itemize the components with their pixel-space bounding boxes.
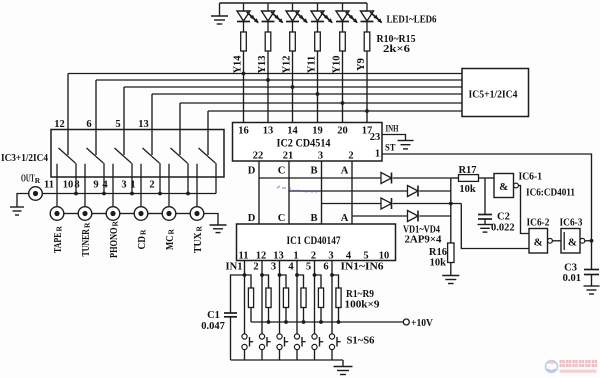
svg-text:INH: INH — [386, 125, 399, 135]
wire R6 to +10V bus — [338, 308, 340, 323]
svg-text:IC6-2: IC6-2 — [527, 218, 550, 229]
wire Y10 column — [342, 51, 344, 123]
junction resistor bottom — [337, 320, 341, 324]
resistor R10 — [241, 32, 247, 51]
junction OUT bus — [186, 192, 190, 196]
wire jack chain — [120, 213, 134, 215]
svg-text:R: R — [83, 222, 92, 228]
resistor R6 — [336, 288, 341, 308]
svg-text:R16: R16 — [429, 247, 447, 258]
svg-text:14: 14 — [287, 126, 298, 137]
wire control to switch 4 — [151, 94, 153, 155]
resistor R14 — [340, 32, 346, 51]
wire ST to oscillator output — [382, 154, 592, 241]
svg-text:11: 11 — [239, 251, 249, 262]
svg-text:&: & — [568, 237, 577, 249]
wire control to switch 6 — [207, 111, 209, 155]
svg-text:1: 1 — [375, 149, 380, 160]
connector OUT jack — [29, 187, 43, 201]
junction resistor bottom — [319, 320, 323, 324]
wire R2 to +10V bus — [268, 308, 270, 323]
svg-text:MC: MC — [165, 236, 176, 251]
svg-text:R: R — [55, 226, 64, 232]
svg-text:TUNER: TUNER — [81, 229, 92, 257]
wire column A — [351, 161, 353, 224]
bus wire Y13 line — [96, 79, 462, 81]
junction IN6 — [330, 273, 334, 277]
svg-text:TAPE: TAPE — [53, 233, 64, 254]
wire to R17 — [451, 177, 459, 179]
resistor R12 — [290, 32, 296, 51]
wire Y9 column — [366, 51, 368, 123]
diode VD4 — [408, 211, 419, 222]
wire jacks to ground — [204, 214, 218, 225]
svg-text:Y10: Y10 — [331, 55, 342, 73]
wire Y13 column — [267, 51, 269, 123]
junction resistor bottom — [284, 320, 288, 324]
svg-text:2k×6: 2k×6 — [383, 43, 411, 55]
wire to R4 — [297, 275, 304, 288]
wire S2 to ground bus — [261, 350, 263, 360]
svg-text:C: C — [278, 166, 286, 177]
diode VD1 — [381, 173, 392, 184]
bus wire Y12 line — [124, 86, 462, 88]
analog switch 5 — [169, 148, 188, 207]
junction IN4 — [295, 273, 299, 277]
LED LED4 — [311, 3, 333, 32]
svg-text:Y12: Y12 — [281, 55, 292, 73]
wire IN1 column — [244, 261, 246, 335]
svg-text:21: 21 — [283, 151, 294, 162]
connector jack TAPER — [50, 207, 64, 221]
svg-text:PHONO: PHONO — [109, 228, 120, 259]
junction Y12 bus — [291, 85, 295, 89]
wire IN3 column — [279, 261, 281, 335]
svg-text:5: 5 — [363, 251, 368, 262]
svg-text:1: 1 — [130, 180, 135, 191]
wire to C3 — [591, 241, 593, 269]
svg-text:A: A — [341, 166, 349, 177]
resistor R16 — [448, 243, 454, 263]
wire VD4 to common — [419, 215, 451, 217]
switch S3 pushbutton — [277, 334, 288, 350]
svg-text:IN1~IN6: IN1~IN6 — [341, 262, 384, 273]
wire column D — [258, 161, 260, 224]
bus wire Y11 line — [152, 93, 462, 95]
svg-text:IC6-1: IC6-1 — [519, 172, 543, 183]
svg-text:23: 23 — [370, 132, 381, 143]
wire OUT to ground — [17, 194, 29, 207]
svg-text:IC5+1/2IC4: IC5+1/2IC4 — [469, 89, 518, 101]
terminal +10V — [403, 319, 409, 325]
svg-text:12: 12 — [54, 119, 65, 130]
svg-text:S1~S6: S1~S6 — [347, 336, 375, 347]
svg-text:R17: R17 — [458, 165, 476, 176]
svg-text:Y11: Y11 — [306, 56, 317, 74]
top supply rail — [220, 2, 368, 4]
wire IN1 to C1 — [231, 275, 245, 313]
wire S4 to ground bus — [296, 350, 298, 360]
svg-text:D: D — [248, 213, 256, 224]
LED LED3 — [286, 3, 308, 32]
wire R3 to +10V bus — [285, 308, 287, 323]
wire to R2 — [262, 275, 269, 288]
wire ground drop top-left — [219, 3, 221, 16]
svg-text:D: D — [248, 166, 256, 177]
resistor R1 — [248, 288, 253, 308]
svg-text:R: R — [35, 176, 41, 185]
svg-text:Y9: Y9 — [356, 58, 367, 71]
wire VD2 to common — [419, 190, 451, 192]
svg-text:2: 2 — [149, 180, 154, 191]
switch S1 pushbutton — [242, 334, 253, 350]
svg-text:16: 16 — [238, 126, 249, 137]
junction Y9 bus — [365, 109, 369, 113]
svg-text:IN1: IN1 — [226, 262, 243, 273]
ground OUT — [10, 207, 24, 215]
svg-text:Y14: Y14 — [232, 55, 243, 74]
svg-text:3: 3 — [121, 180, 126, 191]
wire IC6-2 to IC6-3 — [552, 240, 561, 242]
ground INH — [398, 141, 414, 149]
svg-text:ST: ST — [385, 144, 396, 154]
wire row B to VD3 — [322, 203, 382, 205]
ground top-left — [211, 16, 228, 24]
watermark text bottom-right — [560, 360, 598, 367]
analog switch 3 — [113, 148, 132, 207]
junction OUT bus — [74, 192, 78, 196]
wire row A to VD4 — [352, 215, 408, 217]
IC U-IC3 analog switch box — [51, 130, 224, 178]
ground bottom — [334, 367, 353, 375]
svg-text:OUT: OUT — [21, 174, 35, 185]
junction OUT bus — [130, 192, 134, 196]
svg-text:0.01: 0.01 — [563, 273, 581, 284]
wire C3 to ground — [591, 275, 593, 286]
wire to R3 — [280, 275, 287, 288]
IC U-IC5 box IC5+1/2IC4 — [462, 69, 529, 117]
svg-text:5: 5 — [306, 262, 311, 273]
junction Y11 bus — [316, 92, 320, 96]
junction Y13 bus — [266, 78, 270, 82]
svg-text:R: R — [195, 226, 204, 232]
svg-text:B: B — [310, 213, 317, 224]
wire VD3 to common and branch — [393, 203, 462, 205]
wire jack chain — [64, 213, 78, 215]
IC U-IC2 CD4514 box — [233, 123, 383, 162]
watermark center — [277, 186, 319, 192]
svg-text:10: 10 — [379, 251, 390, 262]
wire diode common vertical — [450, 178, 452, 243]
svg-text:0.022: 0.022 — [491, 223, 515, 234]
wire S5 to ground bus — [314, 350, 316, 360]
svg-text:8: 8 — [74, 180, 79, 191]
svg-text:R: R — [139, 229, 148, 235]
svg-text:TUX: TUX — [193, 232, 204, 253]
ground C2 — [478, 225, 493, 233]
svg-text:R: R — [111, 221, 120, 227]
connector jack MCR — [162, 207, 176, 221]
svg-text:C2: C2 — [497, 212, 510, 223]
svg-text:13: 13 — [273, 251, 284, 262]
svg-text:4: 4 — [288, 262, 294, 273]
wire S3 to ground bus — [279, 350, 281, 360]
wire R1 to +10V bus — [250, 308, 252, 323]
wire ground stub — [342, 360, 344, 366]
resistor R3 — [283, 288, 288, 308]
ground C3 — [584, 286, 600, 294]
wire IC6-1 out to IC6-2 in — [518, 186, 529, 234]
svg-text:2AP9×4: 2AP9×4 — [405, 235, 443, 246]
wire control to switch 3 — [123, 87, 125, 155]
svg-text:R: R — [167, 229, 176, 235]
wire column B — [321, 161, 323, 224]
wire to C2 — [484, 178, 486, 214]
svg-text:2: 2 — [253, 262, 258, 273]
gate IC6-2 NAND — [529, 229, 552, 254]
svg-text:22: 22 — [253, 151, 264, 162]
bus wire Y14 line — [68, 73, 462, 75]
IC U-IC1 CD40147 box — [237, 224, 396, 261]
diode VD3 — [381, 198, 392, 209]
svg-text:IC2 CD4514: IC2 CD4514 — [277, 138, 331, 150]
svg-text:LED1~LED6: LED1~LED6 — [387, 14, 437, 26]
junction IN5 — [313, 273, 317, 277]
resistor R4 — [301, 288, 306, 308]
analog switch 2 — [85, 148, 104, 207]
junction resistor bottom — [267, 320, 271, 324]
analog switch 1 — [57, 148, 76, 207]
wire jack chain — [176, 213, 190, 215]
wire C1 to ground bus — [230, 317, 232, 360]
junction Y14 bus — [242, 72, 246, 76]
bus wire Y10 line — [180, 102, 462, 104]
diode VD2 — [408, 186, 419, 197]
svg-text:0.047: 0.047 — [201, 321, 225, 332]
svg-text:12: 12 — [256, 251, 267, 262]
resistor R11 — [265, 32, 271, 51]
analog switch 4 — [141, 148, 160, 207]
svg-text:10k: 10k — [459, 184, 476, 195]
wire control to switch 2 — [95, 80, 97, 155]
svg-text:Y13: Y13 — [257, 55, 268, 73]
svg-text:IC1 CD40147: IC1 CD40147 — [287, 235, 341, 247]
wire Y11 column — [317, 51, 319, 123]
junction Y10 bus — [341, 101, 345, 105]
svg-text:B: B — [310, 166, 317, 177]
wire IN5 column — [314, 261, 316, 335]
resistor R15 — [364, 32, 370, 51]
junction OUT bus — [102, 192, 106, 196]
wire C2 to ground — [484, 219, 486, 224]
wire IC6-3 out — [585, 240, 592, 242]
junction diode common — [449, 202, 453, 206]
ground jacks — [210, 225, 227, 233]
connector jack CDR — [134, 207, 148, 221]
wire Y12 column — [292, 51, 294, 123]
wire to R1 — [245, 275, 252, 288]
svg-text:9: 9 — [93, 180, 98, 191]
wire jack chain — [148, 213, 162, 215]
switch S6 pushbutton — [329, 334, 340, 350]
svg-text:100k×9: 100k×9 — [345, 300, 380, 311]
svg-text:3: 3 — [328, 251, 333, 262]
wire +10V bus — [251, 321, 403, 323]
wire control to switch 1 — [67, 74, 69, 156]
junction resistor bottom — [302, 320, 306, 324]
svg-text:&: & — [499, 181, 508, 193]
connector jack TUNERR — [78, 207, 92, 221]
ground R16 — [442, 276, 459, 284]
wire branch to IC6-2 input — [461, 204, 529, 249]
wire R16 to ground — [450, 263, 452, 276]
gate IC6-1 NAND — [494, 174, 518, 198]
svg-text:20: 20 — [337, 126, 348, 137]
wire S1 to ground bus — [244, 350, 246, 360]
switch S5 pushbutton — [312, 334, 323, 350]
capacitor C1 — [224, 313, 237, 317]
LED LED5 — [336, 3, 358, 32]
resistor R17 — [459, 175, 479, 182]
wire VD1 to common — [393, 177, 451, 179]
junction OUT bus — [158, 192, 162, 196]
svg-text:4: 4 — [102, 180, 108, 191]
wire R4 to +10V bus — [303, 308, 305, 323]
wire Y14 column — [243, 51, 245, 123]
svg-text:10k: 10k — [430, 258, 447, 269]
wire row D to VD1 — [259, 177, 381, 179]
wire S6 to ground bus — [331, 350, 333, 360]
wire IN6 column — [331, 261, 333, 335]
capacitor C3 — [584, 270, 599, 275]
svg-text:13: 13 — [263, 126, 274, 137]
gate IC6-3 NAND — [561, 229, 585, 254]
wire jack chain — [92, 213, 106, 215]
wire INH to ground — [382, 135, 406, 141]
bus wire Y9 line — [208, 110, 462, 112]
LED LED6 — [361, 3, 383, 32]
svg-text:IC3+1/2IC4: IC3+1/2IC4 — [1, 153, 49, 164]
wire R17 to IC6-1 — [479, 177, 495, 179]
connector jack TUXR — [190, 207, 204, 221]
switch S4 pushbutton — [294, 334, 305, 350]
resistor R13 — [315, 32, 321, 51]
wire control to switch 5 — [179, 103, 181, 155]
connector jack PHONOR — [106, 207, 120, 221]
svg-text:1: 1 — [293, 251, 298, 262]
junction oscillator output — [590, 239, 594, 243]
svg-text:10: 10 — [63, 180, 74, 191]
wire IN4 column — [296, 261, 298, 335]
wire R5 to +10V bus — [320, 308, 322, 323]
switch S2 pushbutton — [259, 334, 270, 350]
svg-text:&: & — [534, 237, 543, 249]
svg-text:11: 11 — [44, 180, 54, 191]
svg-text:5: 5 — [115, 119, 120, 130]
svg-text:2: 2 — [311, 251, 316, 262]
svg-text:C: C — [278, 213, 286, 224]
capacitor C2 — [478, 215, 492, 220]
svg-text:IC6-3: IC6-3 — [560, 218, 583, 229]
svg-text:3: 3 — [271, 262, 276, 273]
wire OUT bus — [42, 193, 216, 195]
svg-text:CD: CD — [137, 236, 148, 250]
svg-text:3: 3 — [318, 151, 323, 162]
LED LED2 — [262, 3, 284, 32]
svg-text:R1~R9: R1~R9 — [346, 289, 374, 300]
svg-text:+10V: +10V — [411, 318, 433, 329]
svg-text:C3: C3 — [564, 263, 577, 274]
svg-text:4: 4 — [346, 251, 352, 262]
LED LED1 — [237, 3, 259, 32]
svg-text:6: 6 — [323, 262, 328, 273]
svg-text:13: 13 — [138, 119, 149, 130]
resistor R2 — [266, 288, 271, 308]
svg-text:IC6:CD4011: IC6:CD4011 — [526, 188, 575, 199]
analog switch 6 — [197, 148, 216, 207]
watermark logo bottom-right — [546, 361, 558, 373]
junction IN3 — [278, 273, 282, 277]
wire row C to VD2 — [289, 190, 408, 192]
svg-text:19: 19 — [312, 126, 323, 137]
svg-text:C1: C1 — [207, 310, 220, 321]
wire to R6 — [332, 275, 339, 288]
wire to R5 — [315, 275, 322, 288]
junction IN1 — [243, 273, 247, 277]
junction IN2 — [260, 273, 264, 277]
svg-text:A: A — [341, 213, 349, 224]
svg-text:6: 6 — [86, 119, 91, 130]
svg-text:2: 2 — [348, 151, 353, 162]
wire ground bus — [231, 359, 344, 361]
wire column C — [288, 161, 290, 224]
wire IN2 column — [261, 261, 263, 335]
resistor R5 — [318, 288, 323, 308]
